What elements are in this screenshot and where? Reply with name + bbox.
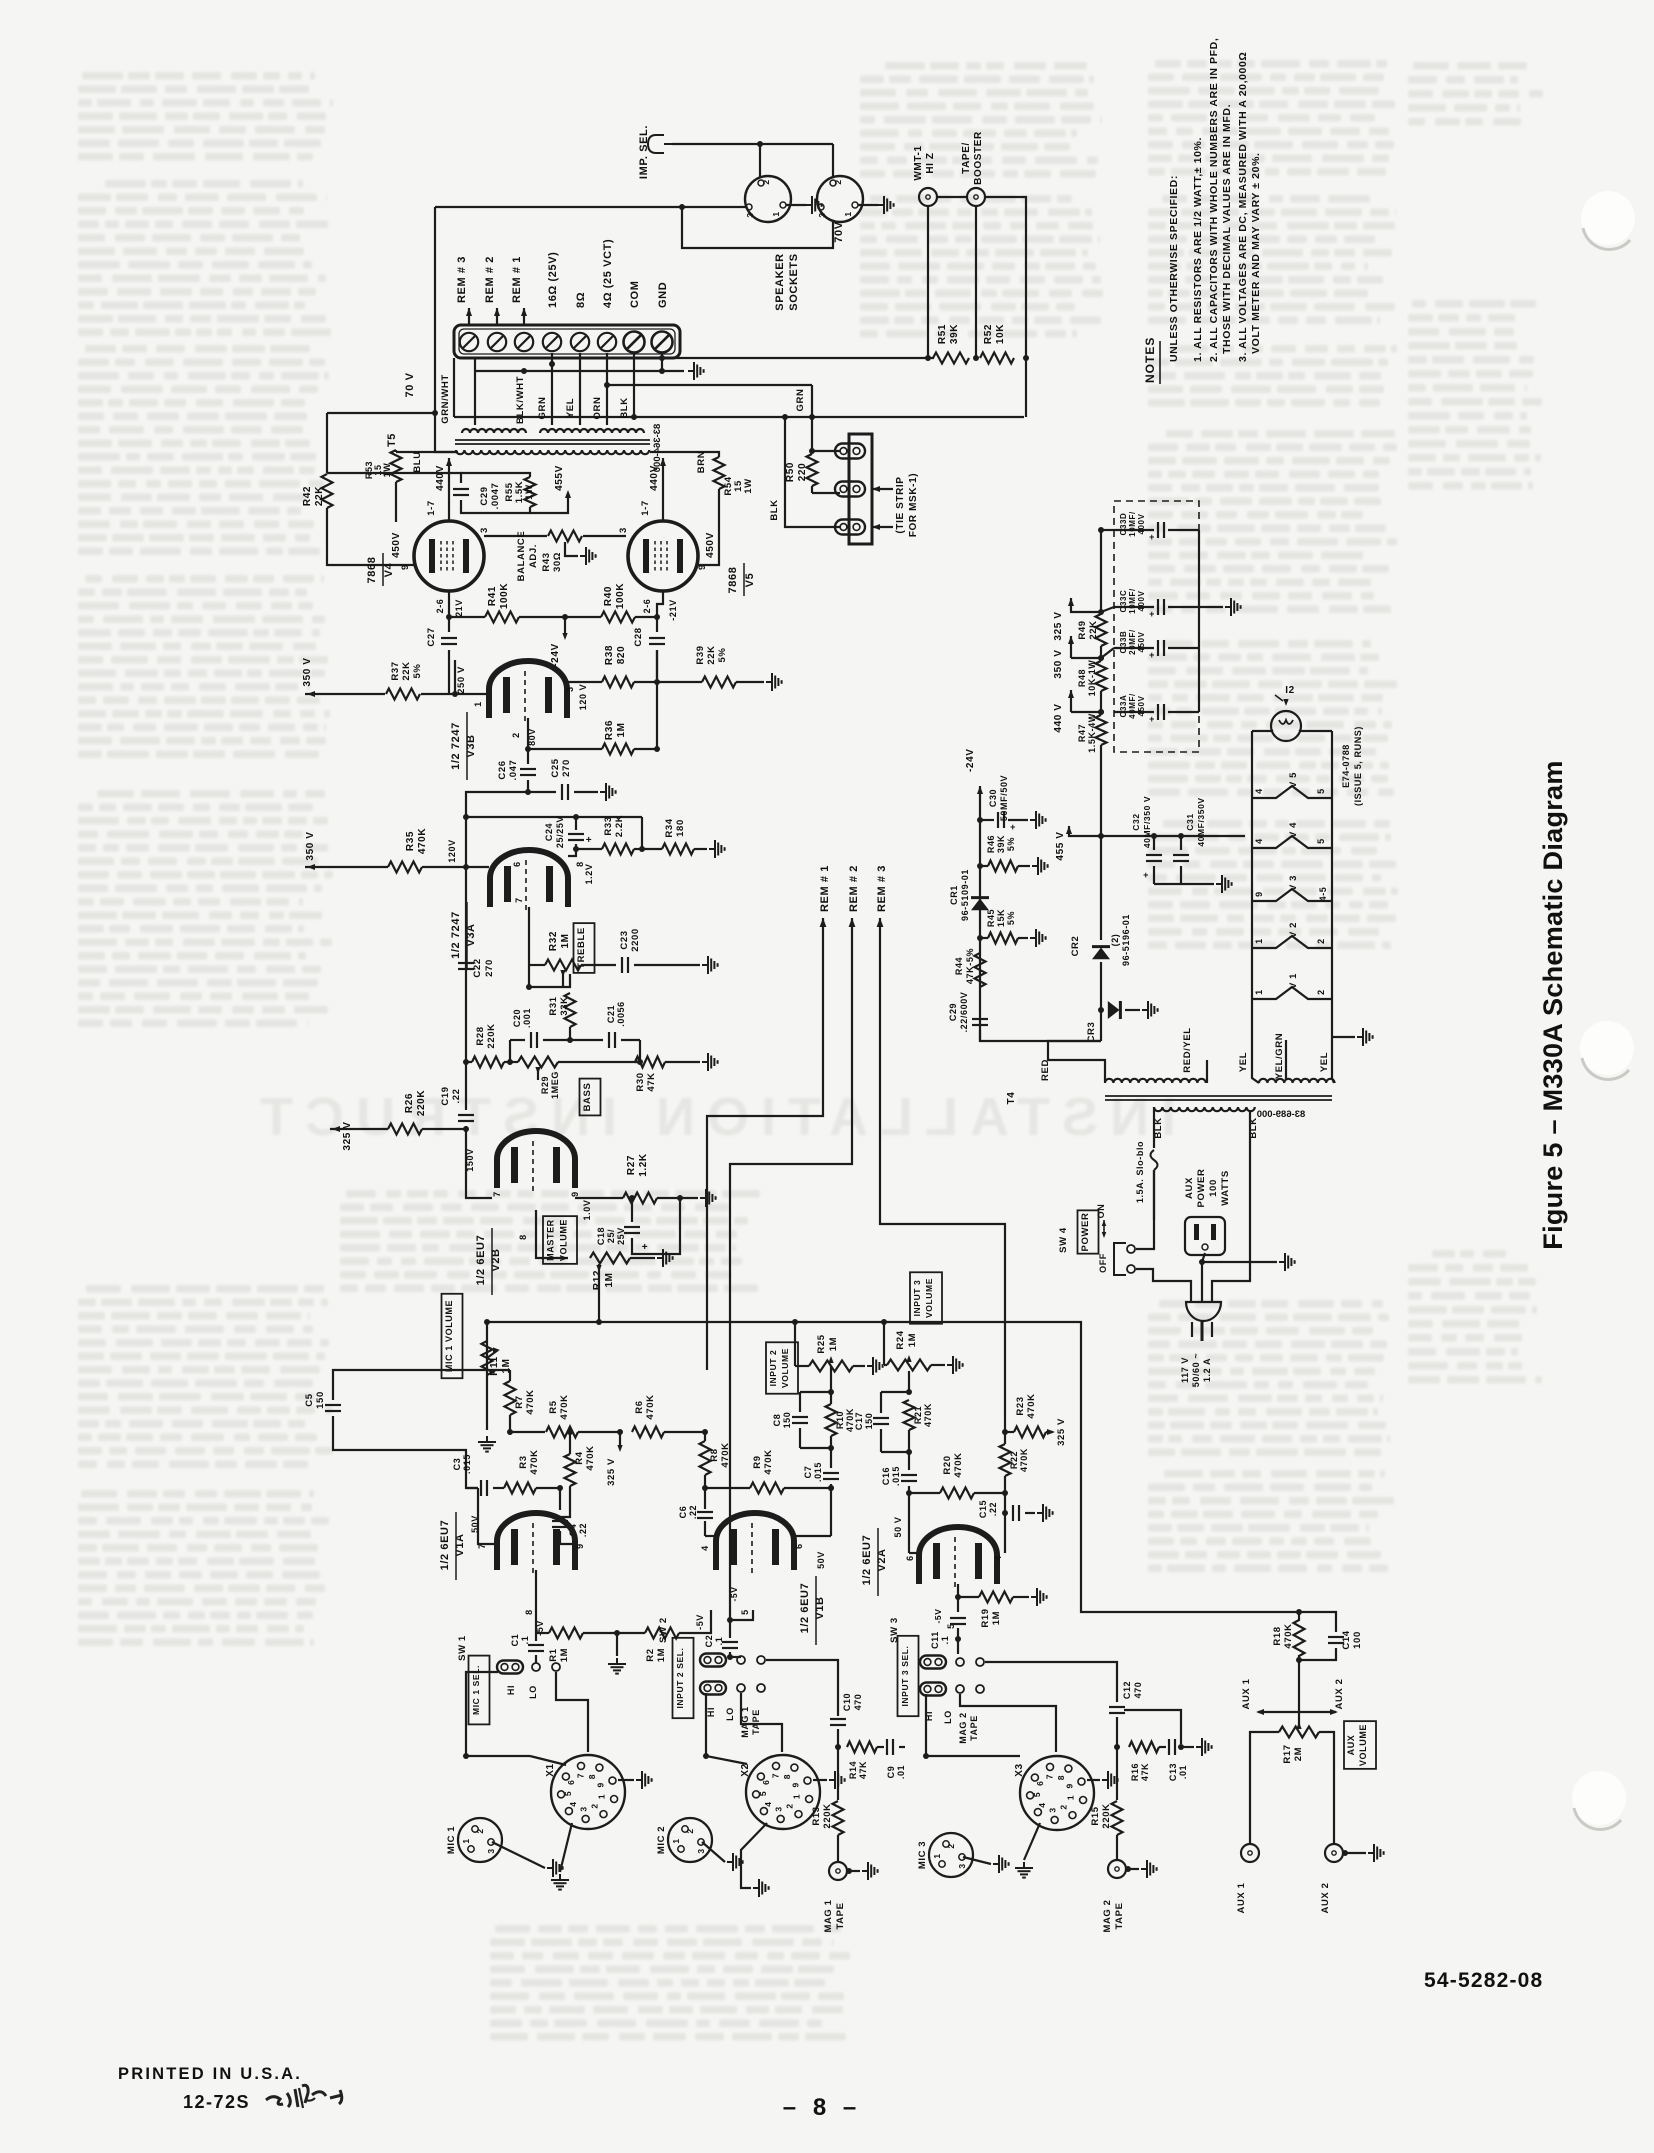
mag 1 tape jack bbox=[829, 1862, 847, 1880]
svg-text:1W: 1W bbox=[524, 484, 535, 499]
svg-text:150: 150 bbox=[864, 1413, 874, 1430]
svg-text:325 V: 325 V bbox=[1056, 1418, 1067, 1446]
svg-text:96-5109-01: 96-5109-01 bbox=[960, 869, 970, 921]
svg-text:54-5282-08: 54-5282-08 bbox=[1424, 1969, 1543, 1992]
svg-text:AUX 2: AUX 2 bbox=[1320, 1883, 1331, 1914]
fuse 1.5A slo-blo bbox=[1153, 1107, 1155, 1148]
svg-text:30Ω: 30Ω bbox=[552, 552, 563, 572]
resistor R40 100K bbox=[601, 612, 635, 623]
svg-text:R25: R25 bbox=[816, 1334, 827, 1353]
triode V1B bbox=[716, 1513, 794, 1570]
svg-text:470K: 470K bbox=[1283, 1623, 1294, 1648]
svg-text:47K-5%: 47K-5% bbox=[965, 948, 975, 984]
svg-text:1M: 1M bbox=[656, 1648, 667, 1662]
svg-text:21V: 21V bbox=[454, 599, 464, 617]
svg-text:+: + bbox=[1149, 714, 1155, 724]
svg-text:1M: 1M bbox=[907, 1333, 918, 1347]
svg-text:R4: R4 bbox=[574, 1451, 585, 1464]
diode CR1 bbox=[971, 899, 989, 911]
svg-text:22K: 22K bbox=[401, 661, 412, 680]
svg-text:1: 1 bbox=[791, 1794, 801, 1799]
svg-text:1M: 1M bbox=[991, 1611, 1002, 1625]
capacitor C22 270 bbox=[458, 962, 474, 964]
svg-text:3: 3 bbox=[618, 527, 629, 533]
svg-text:R34: R34 bbox=[664, 818, 675, 837]
svg-text:R9: R9 bbox=[752, 1455, 763, 1468]
svg-text:TAPE: TAPE bbox=[1114, 1902, 1125, 1929]
svg-text:+: + bbox=[1143, 870, 1149, 880]
svg-text:2: 2 bbox=[785, 1803, 795, 1808]
svg-text:2: 2 bbox=[511, 732, 521, 738]
svg-text:R37: R37 bbox=[390, 661, 401, 680]
bass network R31 33K bbox=[563, 974, 570, 987]
resistor R37 22K 5% bbox=[305, 693, 385, 695]
svg-text:MIC 2: MIC 2 bbox=[656, 1826, 667, 1854]
svg-text:R17: R17 bbox=[1282, 1744, 1293, 1763]
svg-text:R23: R23 bbox=[1015, 1396, 1026, 1415]
svg-text:C33D: C33D bbox=[1119, 513, 1128, 536]
svg-text:C18: C18 bbox=[596, 1227, 606, 1245]
svg-text:HI Z: HI Z bbox=[925, 152, 936, 173]
label 440V arrow bbox=[1068, 690, 1074, 698]
svg-text:470K: 470K bbox=[417, 828, 428, 854]
svg-text:1: 1 bbox=[1065, 1795, 1075, 1800]
svg-text:CR2: CR2 bbox=[1070, 936, 1081, 957]
terminal screw GND bbox=[652, 332, 673, 353]
resistor R53 15 1W bbox=[396, 451, 458, 453]
REM remote send arrows bbox=[820, 918, 827, 927]
wire T4 right to plug bbox=[1212, 1110, 1250, 1303]
capacitor C13 .01 bbox=[1168, 1739, 1170, 1755]
svg-text:BRN: BRN bbox=[696, 451, 707, 473]
svg-text:470K: 470K bbox=[529, 1449, 540, 1474]
wire to treble network bbox=[466, 792, 528, 867]
svg-text:R30: R30 bbox=[635, 1072, 646, 1091]
svg-text:50/60 ~: 50/60 ~ bbox=[1191, 1353, 1201, 1387]
resistor R3 470K bbox=[504, 1483, 536, 1494]
resistor R15 220K bbox=[1116, 1747, 1118, 1800]
svg-text:BLU: BLU bbox=[412, 451, 423, 472]
svg-text:R6: R6 bbox=[634, 1400, 645, 1413]
svg-text:3: 3 bbox=[565, 686, 575, 692]
svg-text:47K: 47K bbox=[858, 1761, 868, 1779]
svg-text:T5: T5 bbox=[386, 433, 398, 447]
svg-text:1M: 1M bbox=[560, 933, 571, 948]
resistor R48 10K-1W bbox=[1096, 661, 1107, 691]
svg-text:C21: C21 bbox=[606, 1005, 616, 1023]
svg-text:220K: 220K bbox=[1101, 1803, 1112, 1828]
ground mic1 bbox=[492, 1842, 545, 1868]
svg-text:2M: 2M bbox=[1293, 1747, 1304, 1761]
svg-text:HI: HI bbox=[706, 1707, 716, 1717]
cathode V3A to C24 bbox=[568, 849, 576, 856]
svg-text:50MF/50V: 50MF/50V bbox=[999, 775, 1009, 821]
svg-text:BLK: BLK bbox=[619, 397, 630, 418]
svg-text:2.2K: 2.2K bbox=[614, 815, 625, 837]
svg-text:C11: C11 bbox=[930, 1631, 940, 1649]
svg-text:AUX 1: AUX 1 bbox=[1241, 1678, 1252, 1709]
svg-text:117 V: 117 V bbox=[1180, 1357, 1190, 1383]
wire SW2 left to mic2 bbox=[706, 1693, 747, 1764]
wire SW3 to C12 bbox=[985, 1662, 1117, 1702]
svg-text:R45: R45 bbox=[986, 909, 996, 927]
capacitor C32 40MF/350V bbox=[1153, 836, 1155, 850]
svg-text:4: 4 bbox=[763, 1801, 773, 1806]
svg-text:47K: 47K bbox=[646, 1072, 657, 1091]
svg-text:9: 9 bbox=[790, 1782, 800, 1787]
master volume pot R12 1M bbox=[536, 1210, 568, 1258]
svg-text:ON: ON bbox=[1096, 1204, 1106, 1219]
capacitor C10 470 bbox=[830, 1718, 846, 1720]
socket X3 bbox=[1020, 1756, 1094, 1830]
svg-text:C16: C16 bbox=[881, 1467, 891, 1485]
input 3 volume pot R24 1M bbox=[910, 1272, 942, 1323]
wire SW3 left to mic3 bbox=[926, 1694, 1020, 1756]
svg-text:3: 3 bbox=[774, 1806, 784, 1811]
mic 3 jack bbox=[929, 1833, 973, 1877]
svg-text:1M: 1M bbox=[604, 1272, 615, 1287]
capacitor C5 150 bbox=[333, 1370, 510, 1400]
triode V2B bbox=[497, 1131, 575, 1188]
svg-text:1-7: 1-7 bbox=[426, 500, 437, 516]
svg-text:4: 4 bbox=[700, 1545, 710, 1551]
transformer T4 heater winding bbox=[1259, 1079, 1335, 1083]
svg-text:1.2V: 1.2V bbox=[584, 864, 594, 885]
svg-text:1: 1 bbox=[596, 1794, 606, 1799]
svg-text:180: 180 bbox=[675, 819, 686, 837]
svg-text:22K: 22K bbox=[706, 645, 717, 664]
resistor R47 1.5K-4W bbox=[1096, 715, 1107, 745]
heater V4 bbox=[1252, 836, 1332, 848]
svg-text:+: + bbox=[1149, 532, 1155, 542]
svg-text:THOSE WITH DECIMAL VALUES ARE: THOSE WITH DECIMAL VALUES ARE IN MFD. bbox=[1221, 104, 1233, 354]
mic 2 jack bbox=[668, 1818, 712, 1862]
svg-text:MAG 1: MAG 1 bbox=[823, 1899, 834, 1932]
svg-text:1: 1 bbox=[1254, 989, 1264, 995]
capacitor C24 25/25V electrolytic bbox=[575, 817, 577, 830]
svg-text:C32: C32 bbox=[1131, 813, 1141, 830]
wire GRN secondary to tie strip bbox=[812, 385, 840, 451]
svg-text:SPEAKER: SPEAKER bbox=[774, 253, 786, 310]
svg-text:REM # 1: REM # 1 bbox=[819, 865, 831, 912]
svg-text:C26: C26 bbox=[497, 760, 508, 779]
resistor R50 220 bbox=[807, 454, 818, 486]
svg-text:470K: 470K bbox=[645, 1394, 656, 1419]
svg-text:1: 1 bbox=[461, 1838, 471, 1843]
capacitor C8 150 bbox=[830, 1366, 832, 1392]
svg-text:C6: C6 bbox=[678, 1506, 688, 1519]
capacitor C33C 10MF/400V bbox=[1114, 606, 1154, 608]
svg-text:3: 3 bbox=[817, 212, 827, 217]
svg-text:R35: R35 bbox=[405, 831, 416, 851]
svg-text:I2: I2 bbox=[1285, 685, 1295, 696]
svg-text:.015: .015 bbox=[813, 1462, 823, 1482]
capacitor C12 470 bbox=[1109, 1706, 1125, 1708]
resistor R7 470K bbox=[505, 1381, 516, 1415]
svg-text:+: + bbox=[1149, 650, 1155, 660]
wire imp sel to sockets bbox=[672, 143, 833, 145]
svg-text:5: 5 bbox=[563, 1791, 573, 1796]
svg-text:+: + bbox=[642, 1242, 648, 1253]
capacitor C11 .1 bbox=[950, 1617, 966, 1619]
ground mic3 bbox=[963, 1857, 991, 1864]
input 2 volume pot R25 1M bbox=[766, 1342, 798, 1393]
line plug 117V bbox=[1186, 1302, 1221, 1321]
transformer T5 primary winding bbox=[456, 450, 649, 454]
svg-text:GRN: GRN bbox=[537, 397, 548, 420]
svg-text:3: 3 bbox=[486, 1848, 496, 1853]
svg-text:150: 150 bbox=[782, 1412, 792, 1429]
svg-text:C14: C14 bbox=[1341, 1630, 1352, 1649]
svg-text:R7: R7 bbox=[514, 1395, 525, 1408]
svg-text:V4: V4 bbox=[383, 562, 395, 577]
capacitor C23 2200 bbox=[621, 957, 623, 973]
ink smudge bbox=[266, 2085, 342, 2108]
svg-text:BALANCE: BALANCE bbox=[516, 531, 527, 582]
svg-text:R44: R44 bbox=[954, 957, 964, 975]
rectifier CR2 bbox=[1100, 836, 1102, 940]
capacitor C15 .22 bbox=[1012, 1505, 1014, 1521]
svg-text:R21: R21 bbox=[913, 1406, 923, 1424]
resistor R46 39K 5% bbox=[977, 863, 983, 869]
svg-text:V 1: V 1 bbox=[1288, 973, 1299, 989]
svg-text:1/2 7247: 1/2 7247 bbox=[450, 722, 462, 770]
resistor R9 470K bbox=[750, 1483, 784, 1494]
grid wire V1A bbox=[466, 1487, 478, 1489]
wire SW1 to X1 bbox=[556, 1672, 588, 1752]
resistor R21 470K bbox=[908, 1371, 910, 1392]
svg-text:9: 9 bbox=[1064, 1783, 1074, 1788]
svg-text:.22: .22 bbox=[688, 1505, 698, 1519]
svg-text:2: 2 bbox=[1316, 938, 1326, 944]
label REM #3 bbox=[466, 308, 472, 316]
svg-text:V 4: V 4 bbox=[1288, 822, 1299, 838]
hole punch bottom bbox=[1572, 1771, 1626, 1830]
svg-text:.0047: .0047 bbox=[490, 483, 501, 510]
svg-text:MAG 2: MAG 2 bbox=[958, 1712, 968, 1744]
svg-text:1W: 1W bbox=[382, 463, 392, 478]
svg-text:UNLESS OTHERWISE SPECIFIED:: UNLESS OTHERWISE SPECIFIED: bbox=[1168, 175, 1180, 362]
svg-text:.015: .015 bbox=[891, 1466, 901, 1486]
svg-text:REM # 2: REM # 2 bbox=[848, 865, 860, 912]
ground X2 pin2 bbox=[813, 1779, 827, 1781]
resistor R10 470K bbox=[826, 1404, 837, 1436]
svg-text:3: 3 bbox=[1048, 1807, 1058, 1812]
label 350V arrow bbox=[1068, 636, 1074, 644]
resistor R2 1M bbox=[645, 1628, 679, 1639]
rectifier CR3 bbox=[1100, 962, 1102, 1010]
wire BLK to tie strip bbox=[785, 417, 840, 527]
svg-text:2: 2 bbox=[475, 1828, 485, 1833]
svg-text:AUX 1: AUX 1 bbox=[1236, 1882, 1247, 1913]
svg-text:440V: 440V bbox=[649, 465, 660, 491]
svg-text:OFF: OFF bbox=[1098, 1253, 1108, 1273]
svg-text:-24V: -24V bbox=[550, 643, 561, 667]
svg-text:10MF/: 10MF/ bbox=[1128, 511, 1137, 537]
svg-text:4: 4 bbox=[1254, 788, 1264, 794]
triode V3A bbox=[490, 850, 568, 907]
svg-text:5: 5 bbox=[1316, 788, 1326, 794]
svg-text:VOLT METER AND MAY VARY ± 20%.: VOLT METER AND MAY VARY ± 20%. bbox=[1250, 152, 1262, 354]
svg-text:16Ω (25V): 16Ω (25V) bbox=[547, 252, 559, 308]
svg-text:450V: 450V bbox=[1137, 631, 1146, 652]
svg-text:120 V: 120 V bbox=[578, 684, 588, 711]
svg-text:7: 7 bbox=[576, 1773, 586, 1778]
svg-text:NOTES: NOTES bbox=[1143, 337, 1157, 383]
svg-text:1M: 1M bbox=[828, 1337, 839, 1351]
svg-text:C5: C5 bbox=[304, 1393, 315, 1406]
resistor R18 470K bbox=[1294, 1620, 1305, 1656]
svg-text:LO: LO bbox=[943, 1710, 953, 1724]
aux output arrows bbox=[1258, 1711, 1297, 1713]
ground heater bus bbox=[1332, 1036, 1355, 1038]
ground X3 pin5 bbox=[1024, 1823, 1040, 1860]
B+ row R5 R6 bbox=[510, 1431, 545, 1433]
svg-text:X3: X3 bbox=[1014, 1763, 1025, 1776]
wire bus BLK to tie strip bbox=[454, 416, 1024, 418]
svg-text:25/25V: 25/25V bbox=[555, 816, 565, 848]
svg-text:6: 6 bbox=[1035, 1781, 1045, 1786]
svg-text:VOLUME: VOLUME bbox=[780, 1348, 790, 1388]
svg-text:.001: .001 bbox=[522, 1008, 532, 1028]
capacitor C2 .1 bbox=[722, 1641, 738, 1643]
svg-text:BLK/WHT: BLK/WHT bbox=[515, 376, 526, 424]
ground cathode bus bbox=[616, 1633, 618, 1656]
svg-text:325 V: 325 V bbox=[606, 1458, 617, 1486]
mic 1 jack bbox=[458, 1818, 502, 1862]
node 2-6 -21V right bbox=[657, 591, 663, 617]
svg-text:C20: C20 bbox=[512, 1009, 522, 1027]
svg-text:CR3: CR3 bbox=[1086, 1022, 1097, 1043]
svg-text:7: 7 bbox=[771, 1773, 781, 1778]
svg-text:1: 1 bbox=[843, 211, 853, 216]
resistor R4 470K bbox=[565, 1454, 576, 1486]
svg-text:R8: R8 bbox=[709, 1448, 720, 1461]
svg-text:SOCKETS: SOCKETS bbox=[788, 253, 800, 310]
svg-text:3: 3 bbox=[696, 1848, 706, 1853]
svg-text:1W: 1W bbox=[743, 478, 754, 493]
resistor R27 1.2K bbox=[623, 1193, 657, 1204]
svg-text:REM # 3: REM # 3 bbox=[876, 865, 888, 912]
svg-text:.22: .22 bbox=[451, 1088, 462, 1103]
svg-text:9: 9 bbox=[400, 564, 411, 570]
mag 2 tape jack bbox=[1108, 1860, 1126, 1878]
svg-text:470K: 470K bbox=[1019, 1448, 1029, 1472]
svg-text:25V: 25V bbox=[616, 1227, 626, 1245]
capacitor C17 150 bbox=[881, 1391, 909, 1393]
wire switch to plug left prong bbox=[1136, 1269, 1191, 1303]
resistor R54 15 1W bbox=[650, 452, 719, 457]
svg-text:R29: R29 bbox=[540, 1076, 550, 1094]
svg-text:47K: 47K bbox=[1140, 1763, 1150, 1781]
wire C12 right branch bbox=[1116, 1709, 1118, 1711]
svg-text:220K: 220K bbox=[486, 1023, 497, 1048]
svg-text:470K: 470K bbox=[525, 1389, 536, 1414]
svg-text:R3: R3 bbox=[518, 1455, 529, 1468]
svg-text:.01: .01 bbox=[1178, 1765, 1188, 1779]
svg-text:C31: C31 bbox=[1185, 813, 1195, 830]
mic 1 volume pot R11 1M bbox=[486, 1322, 488, 1430]
ground primary bbox=[1202, 1261, 1277, 1263]
svg-text:8: 8 bbox=[518, 1234, 528, 1240]
capacitor C7 .015 bbox=[830, 1448, 832, 1468]
ground mic2 bbox=[702, 1842, 725, 1862]
svg-text:270: 270 bbox=[484, 959, 495, 977]
svg-text:RED: RED bbox=[1040, 1059, 1051, 1081]
svg-text:470K: 470K bbox=[763, 1449, 774, 1474]
svg-text:R26: R26 bbox=[404, 1093, 415, 1113]
resistor R22 470K bbox=[1000, 1444, 1011, 1476]
svg-text:C23: C23 bbox=[619, 930, 630, 949]
svg-text:R49: R49 bbox=[1077, 620, 1088, 639]
svg-text:.1: .1 bbox=[714, 1637, 724, 1646]
triode V3B bbox=[489, 661, 567, 718]
resistor R38 820 bbox=[602, 677, 634, 688]
resistor R13 220K bbox=[837, 1747, 839, 1800]
svg-text:C15: C15 bbox=[978, 1500, 988, 1518]
heater V3 bbox=[1252, 889, 1332, 901]
svg-text:R15: R15 bbox=[1090, 1806, 1101, 1825]
resistor R1 1M bbox=[549, 1628, 583, 1639]
svg-text:350 V: 350 V bbox=[1053, 649, 1064, 678]
svg-text:39K: 39K bbox=[949, 324, 960, 344]
svg-text:V 2: V 2 bbox=[1288, 922, 1299, 938]
svg-text:5: 5 bbox=[1032, 1792, 1042, 1797]
svg-text:8: 8 bbox=[587, 1774, 597, 1779]
resistor R41 100K bbox=[449, 616, 485, 618]
svg-text:C1: C1 bbox=[510, 1634, 520, 1647]
capacitor C18 25/25V bbox=[631, 1198, 633, 1222]
svg-text:6: 6 bbox=[761, 1780, 771, 1785]
svg-text:1: 1 bbox=[771, 211, 781, 216]
svg-text:9: 9 bbox=[1254, 891, 1264, 897]
capacitor C33B 20MF/450V bbox=[1114, 647, 1154, 649]
svg-text:1M: 1M bbox=[559, 1648, 570, 1662]
svg-text:4: 4 bbox=[568, 1801, 578, 1806]
svg-text:C9: C9 bbox=[886, 1766, 896, 1779]
svg-text:470K: 470K bbox=[585, 1445, 596, 1470]
svg-text:COM: COM bbox=[629, 281, 641, 308]
bias chain -24V bbox=[977, 786, 983, 794]
svg-text:-5V: -5V bbox=[729, 1586, 739, 1601]
label REM #2 bbox=[494, 308, 500, 316]
svg-text:IMP. SEL.: IMP. SEL. bbox=[638, 125, 650, 179]
capacitor C31 40MF/350V bbox=[1180, 836, 1182, 850]
capacitor C25 270 bbox=[528, 791, 556, 793]
capacitor C9 .01 bbox=[886, 1739, 888, 1755]
svg-text:GRN/WHT: GRN/WHT bbox=[440, 374, 451, 424]
long bus grid row bbox=[487, 1322, 1299, 1612]
wire outlet to plug middle prong bbox=[1202, 1253, 1205, 1303]
resistor R35 470K bbox=[305, 866, 388, 868]
svg-text:7868: 7868 bbox=[366, 557, 378, 584]
resistor R30 47K bbox=[635, 1057, 665, 1068]
svg-text:R1: R1 bbox=[548, 1648, 559, 1661]
transformer T4 core bbox=[1105, 1095, 1332, 1097]
svg-text:440 V: 440 V bbox=[1053, 703, 1064, 732]
svg-text:C2: C2 bbox=[704, 1635, 714, 1648]
svg-text:440V: 440V bbox=[435, 465, 446, 491]
svg-text:2: 2 bbox=[685, 1828, 695, 1833]
svg-text:R27: R27 bbox=[626, 1155, 637, 1175]
resistor R20 470K bbox=[940, 1488, 974, 1499]
heater V1 bbox=[1252, 987, 1332, 999]
triode V1A bbox=[497, 1513, 575, 1570]
label 440V left arrow bbox=[446, 458, 452, 466]
svg-text:MASTER: MASTER bbox=[546, 1219, 556, 1261]
bass pot R29 1MEG bbox=[518, 1057, 558, 1068]
svg-text:VOLUME: VOLUME bbox=[1358, 1724, 1368, 1766]
